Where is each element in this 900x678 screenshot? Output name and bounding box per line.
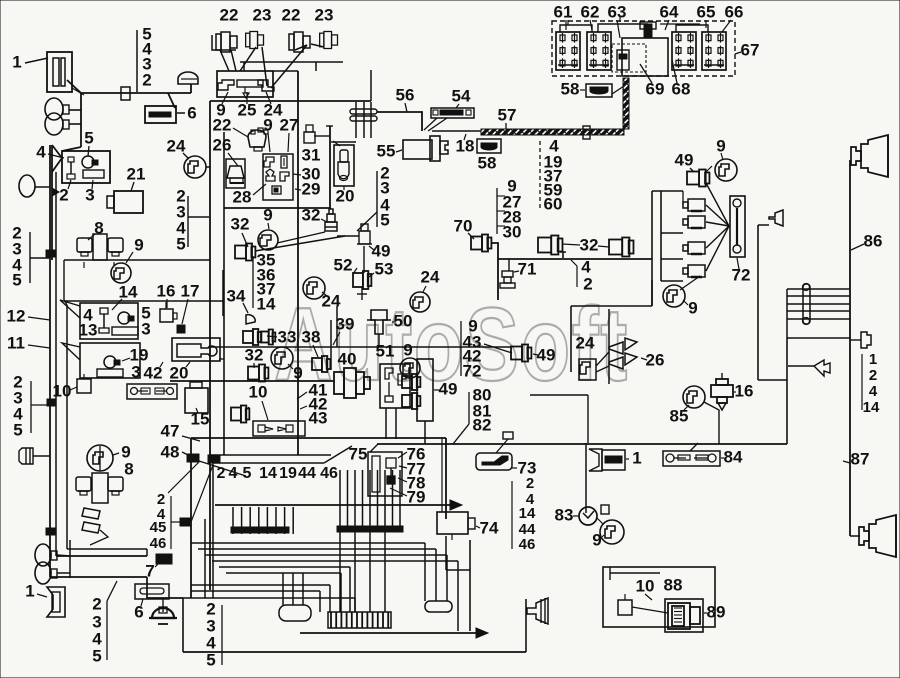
svg-text:32: 32 xyxy=(231,214,250,233)
svg-text:3: 3 xyxy=(85,185,94,204)
svg-text:6: 6 xyxy=(134,602,143,621)
svg-text:87: 87 xyxy=(851,449,870,468)
svg-text:1: 1 xyxy=(12,52,21,71)
svg-text:38: 38 xyxy=(302,327,321,346)
svg-text:1: 1 xyxy=(869,351,877,368)
svg-text:5: 5 xyxy=(92,646,101,665)
svg-text:22: 22 xyxy=(220,5,239,24)
svg-text:26: 26 xyxy=(213,135,232,154)
svg-text:43: 43 xyxy=(309,408,328,427)
svg-text:51: 51 xyxy=(376,341,395,360)
svg-text:10: 10 xyxy=(53,381,72,400)
svg-text:58: 58 xyxy=(561,79,580,98)
svg-text:53: 53 xyxy=(375,259,394,278)
svg-text:9: 9 xyxy=(716,136,725,155)
svg-text:9: 9 xyxy=(263,205,272,224)
svg-text:55: 55 xyxy=(377,141,396,160)
svg-text:16: 16 xyxy=(735,381,754,400)
svg-text:14: 14 xyxy=(519,505,536,522)
svg-text:75: 75 xyxy=(349,444,368,463)
svg-text:4: 4 xyxy=(229,465,238,482)
svg-text:39: 39 xyxy=(336,314,355,333)
svg-text:46: 46 xyxy=(150,535,167,552)
svg-text:84: 84 xyxy=(724,447,743,466)
svg-text:89: 89 xyxy=(707,602,726,621)
svg-text:58: 58 xyxy=(478,153,497,172)
svg-text:45: 45 xyxy=(150,519,167,536)
svg-text:86: 86 xyxy=(864,231,883,250)
svg-text:24: 24 xyxy=(167,136,186,155)
svg-text:2: 2 xyxy=(142,70,151,89)
svg-text:4: 4 xyxy=(869,383,878,400)
svg-text:49: 49 xyxy=(537,345,556,364)
svg-text:88: 88 xyxy=(664,575,683,594)
svg-text:82: 82 xyxy=(473,415,492,434)
svg-text:2: 2 xyxy=(59,185,68,204)
svg-text:65: 65 xyxy=(697,2,716,21)
svg-text:79: 79 xyxy=(407,487,426,506)
svg-text:9: 9 xyxy=(263,115,272,134)
svg-text:16: 16 xyxy=(157,281,176,300)
svg-text:3: 3 xyxy=(131,362,140,381)
svg-text:3: 3 xyxy=(141,319,150,338)
svg-text:46: 46 xyxy=(519,536,536,553)
svg-text:24: 24 xyxy=(421,267,440,286)
svg-text:47: 47 xyxy=(161,421,180,440)
svg-text:49: 49 xyxy=(439,379,458,398)
svg-text:49: 49 xyxy=(675,150,694,169)
svg-text:5: 5 xyxy=(243,465,252,482)
svg-text:17: 17 xyxy=(181,281,200,300)
svg-text:14: 14 xyxy=(259,465,277,482)
svg-text:63: 63 xyxy=(608,2,627,21)
svg-text:60: 60 xyxy=(544,194,563,213)
svg-text:1: 1 xyxy=(25,581,34,600)
svg-text:42: 42 xyxy=(144,363,163,382)
svg-text:21: 21 xyxy=(127,164,146,183)
svg-text:5: 5 xyxy=(380,210,389,229)
svg-text:69: 69 xyxy=(646,79,665,98)
svg-text:50: 50 xyxy=(394,311,413,330)
svg-text:24: 24 xyxy=(576,333,595,352)
svg-text:6: 6 xyxy=(187,103,196,122)
svg-text:33: 33 xyxy=(278,327,297,346)
svg-text:28: 28 xyxy=(233,187,252,206)
svg-text:44: 44 xyxy=(298,465,316,482)
svg-text:2: 2 xyxy=(217,465,226,482)
svg-text:31: 31 xyxy=(302,145,321,164)
svg-text:61: 61 xyxy=(554,2,573,21)
svg-text:2: 2 xyxy=(583,274,592,293)
svg-text:12: 12 xyxy=(7,306,26,325)
svg-text:15: 15 xyxy=(191,409,210,428)
svg-text:5: 5 xyxy=(176,234,185,253)
svg-text:9: 9 xyxy=(293,363,302,382)
svg-text:11: 11 xyxy=(7,333,25,352)
svg-text:40: 40 xyxy=(338,349,357,368)
svg-text:2: 2 xyxy=(92,594,101,613)
svg-text:5: 5 xyxy=(206,650,215,669)
svg-text:5: 5 xyxy=(12,270,21,289)
svg-text:72: 72 xyxy=(463,361,482,380)
svg-text:32: 32 xyxy=(302,205,321,224)
svg-text:30: 30 xyxy=(503,222,522,241)
svg-text:56: 56 xyxy=(396,85,415,104)
svg-text:85: 85 xyxy=(670,406,689,425)
svg-text:64: 64 xyxy=(660,2,679,21)
svg-text:49: 49 xyxy=(372,241,391,260)
svg-text:27: 27 xyxy=(280,115,299,134)
svg-text:10: 10 xyxy=(636,576,655,595)
svg-text:34: 34 xyxy=(227,286,246,305)
svg-text:23: 23 xyxy=(315,5,334,24)
svg-text:19: 19 xyxy=(279,465,297,482)
svg-text:5: 5 xyxy=(13,420,22,439)
svg-text:54: 54 xyxy=(452,86,471,105)
svg-text:10: 10 xyxy=(249,382,268,401)
svg-text:14: 14 xyxy=(257,294,276,313)
svg-text:13: 13 xyxy=(79,320,98,339)
svg-text:46: 46 xyxy=(320,465,338,482)
svg-text:29: 29 xyxy=(302,179,321,198)
svg-text:71: 71 xyxy=(518,259,537,278)
svg-text:14: 14 xyxy=(863,399,880,416)
svg-text:7: 7 xyxy=(145,561,154,580)
svg-text:68: 68 xyxy=(672,79,691,98)
svg-text:62: 62 xyxy=(581,2,600,21)
svg-text:9: 9 xyxy=(403,340,412,359)
svg-text:2: 2 xyxy=(526,475,534,492)
svg-text:57: 57 xyxy=(498,105,517,124)
svg-text:67: 67 xyxy=(741,40,760,59)
svg-text:83: 83 xyxy=(555,505,574,524)
svg-text:32: 32 xyxy=(580,235,599,254)
svg-text:2: 2 xyxy=(869,367,877,384)
svg-text:23: 23 xyxy=(253,5,272,24)
svg-text:9: 9 xyxy=(592,530,601,549)
svg-text:26: 26 xyxy=(646,350,665,369)
svg-text:52: 52 xyxy=(334,255,353,274)
svg-text:9: 9 xyxy=(134,235,143,254)
svg-text:70: 70 xyxy=(454,216,473,235)
svg-text:32: 32 xyxy=(245,345,264,364)
svg-text:74: 74 xyxy=(480,518,499,537)
svg-text:20: 20 xyxy=(170,363,189,382)
svg-text:4: 4 xyxy=(36,142,46,161)
svg-text:72: 72 xyxy=(732,265,751,284)
svg-text:20: 20 xyxy=(336,186,355,205)
svg-text:18: 18 xyxy=(456,136,475,155)
svg-text:5: 5 xyxy=(84,128,93,147)
svg-text:48: 48 xyxy=(161,442,180,461)
svg-text:66: 66 xyxy=(725,2,744,21)
svg-text:22: 22 xyxy=(282,5,301,24)
svg-text:8: 8 xyxy=(124,459,133,478)
svg-text:1: 1 xyxy=(632,448,641,467)
svg-text:22: 22 xyxy=(213,115,232,134)
svg-text:9: 9 xyxy=(688,298,697,317)
